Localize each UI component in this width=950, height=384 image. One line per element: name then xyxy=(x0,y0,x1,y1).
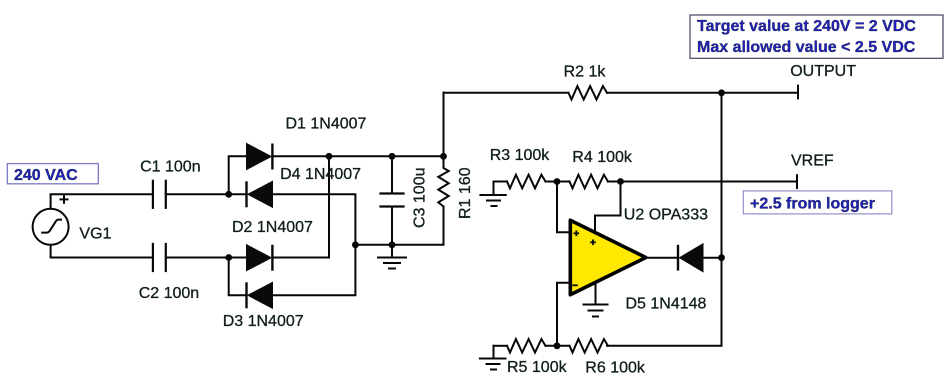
resistor R4 xyxy=(570,175,609,189)
op-amp + input mark xyxy=(574,231,580,237)
annotation box: target values xyxy=(690,15,943,58)
terminal tick OUTPUT xyxy=(797,86,799,99)
svg-text:Target value at 240V = 2 VDC: Target value at 240V = 2 VDC xyxy=(697,18,916,35)
resistor R1 (vertical) xyxy=(438,156,448,206)
capacitor C3 leads xyxy=(391,156,393,193)
svg-text:Max allowed value < 2.5 VDC: Max allowed value < 2.5 VDC xyxy=(697,39,916,56)
resistor R6 xyxy=(570,339,609,353)
node: negative row / C3 bottom xyxy=(389,241,396,248)
ground below op-amp xyxy=(584,305,608,317)
wire: riser from top rail up to D1 row xyxy=(229,156,247,194)
svg-text:240 VAC: 240 VAC xyxy=(14,167,78,184)
wire: negative node row to C3 and R1 bottom xyxy=(355,207,443,245)
junction node dots xyxy=(225,89,725,349)
node: positive rail / R1 top xyxy=(440,153,447,160)
svg-text:D4 1N4007: D4 1N4007 xyxy=(280,166,361,183)
op-amp V+ supply mark xyxy=(590,240,596,246)
node A: R3/R4 junction xyxy=(554,178,561,185)
wire: ground jog to R5 xyxy=(494,345,508,347)
resistor R3 xyxy=(507,175,546,189)
node B: R4 / VREF / op-amp supply xyxy=(617,178,624,185)
wire: D1 cathode to top positive rail xyxy=(272,155,443,157)
svg-text:R3 100k: R3 100k xyxy=(490,147,551,164)
svg-text:U2 OPA333: U2 OPA333 xyxy=(624,206,708,223)
wire: R1 top node up to R2 row xyxy=(443,93,445,157)
svg-text:D5 1N4148: D5 1N4148 xyxy=(626,296,707,313)
wire: R5 to R6 through node xyxy=(546,345,570,347)
wire: R4 to node B and VREF terminal xyxy=(608,181,797,183)
svg-text:VREF: VREF xyxy=(791,152,834,169)
node: R5/R6 junction xyxy=(554,342,561,349)
polarity + mark of VG1 xyxy=(60,195,69,204)
wire: R2 to OUTPUT terminal xyxy=(607,92,798,94)
svg-text:R1 160: R1 160 xyxy=(457,167,474,219)
wire: C1 to bridge left node xyxy=(166,193,247,195)
capacitor C3 plates xyxy=(381,194,404,207)
diode D5 xyxy=(678,244,703,272)
wire: node A down to op-amp non-inverting input xyxy=(557,182,570,233)
ground at R3 left xyxy=(480,182,505,207)
wire: op-amp negative supply stem to ground xyxy=(595,281,597,305)
wire: D2 cathode up to positive rail xyxy=(272,156,329,257)
node: positive rail / D2 riser xyxy=(326,153,333,160)
svg-text:D3 1N4007: D3 1N4007 xyxy=(223,313,304,330)
voltage generator VG1 xyxy=(33,209,69,245)
terminal tick VREF xyxy=(796,175,798,188)
svg-text:VG1: VG1 xyxy=(79,225,111,242)
svg-text:D2 1N4007: D2 1N4007 xyxy=(232,219,313,236)
annotation box: 240 VAC xyxy=(7,164,98,184)
resistor R5 xyxy=(507,339,546,353)
wire: R2 row left segment xyxy=(444,92,569,94)
diode D2 xyxy=(247,245,273,271)
svg-text:D1 1N4007: D1 1N4007 xyxy=(286,116,367,133)
node: top rail / D1 riser xyxy=(225,191,232,198)
wire: D5 anode to output riser xyxy=(703,257,722,259)
wire: R3 to node A xyxy=(546,181,570,183)
ground below C3 xyxy=(378,245,406,269)
resistor R2 xyxy=(569,86,608,100)
diode D4 xyxy=(247,181,273,207)
op-amp - input mark xyxy=(572,284,578,286)
wire: D4 anode to right riser down to D3 row xyxy=(273,194,356,295)
svg-text:R6 100k: R6 100k xyxy=(585,360,646,377)
diode D1 xyxy=(247,144,273,170)
wire: ground jog to R3 xyxy=(494,181,508,183)
svg-text:C2 100n: C2 100n xyxy=(139,285,200,302)
wire: node B down to op-amp positive supply pin xyxy=(595,182,621,234)
wire: VG1 bottom lead xyxy=(51,245,153,258)
svg-text:C1 100n: C1 100n xyxy=(140,159,201,176)
node: negative row / D4-D3 riser xyxy=(352,241,359,248)
op-amp U2 triangle xyxy=(570,220,646,294)
svg-text:+2.5 from logger: +2.5 from logger xyxy=(750,196,875,213)
node: OUTPUT row / output riser xyxy=(718,89,725,96)
svg-text:OUTPUT: OUTPUT xyxy=(790,63,856,80)
wire: op-amp output to D5 cathode xyxy=(647,257,678,259)
diode D3 xyxy=(247,282,273,308)
svg-text:R5 100k: R5 100k xyxy=(507,359,568,376)
wire: C2 to bridge lower-left node xyxy=(166,257,247,259)
capacitor C2 xyxy=(153,244,166,271)
node: positive rail / C3 top xyxy=(389,153,396,160)
wire: inverting input riser from R5/R6 node xyxy=(557,283,570,346)
svg-text:C3 100u: C3 100u xyxy=(412,168,429,229)
capacitor C1 xyxy=(153,181,166,208)
wire: riser from lower rail down to D3 row xyxy=(229,258,247,296)
annotation box: +2.5 from logger xyxy=(743,191,892,214)
node: lower rail / D3 riser xyxy=(225,254,232,261)
svg-text:R4 100k: R4 100k xyxy=(572,149,633,166)
wire: output riser from OUTPUT row down to R6 right end xyxy=(607,93,722,346)
ground at R5 left xyxy=(480,346,506,370)
wire: VG1 top lead xyxy=(51,194,153,209)
node: D5 anode / output riser xyxy=(718,254,725,261)
svg-text:R2 1k: R2 1k xyxy=(564,64,607,81)
